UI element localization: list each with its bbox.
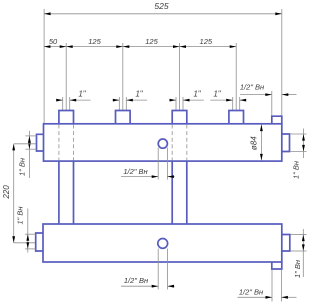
svg-text:1" Вн: 1" Вн — [17, 158, 26, 176]
dim 525 extension line left — [43, 9, 45, 124]
dim 1/2" top stub — [240, 82, 297, 116]
lower circle port — [158, 239, 168, 249]
svg-text:50: 50 — [49, 37, 58, 46]
top stub 1 — [59, 111, 74, 124]
dim 1" Вн left upper stub — [17, 131, 36, 178]
svg-text:1/2" Вн: 1/2" Вн — [124, 276, 148, 285]
upper circle port — [158, 139, 167, 148]
dim 220 — [2, 144, 36, 243]
dim 1" Вн left lower stub — [15, 206, 35, 252]
dim row2 arrow at 43.9 — [44, 45, 51, 48]
dim 1" Вн right lower stub — [291, 229, 307, 278]
dim row2 arrows at 122.8 — [116, 45, 123, 48]
dim 525 extension line right — [281, 9, 283, 116]
svg-text:125: 125 — [200, 37, 213, 46]
right stub lower collector — [282, 235, 290, 252]
dim row2 ext 179.5 — [179, 43, 181, 111]
svg-text:1/2" Вн: 1/2" Вн — [239, 287, 263, 296]
left stub lower collector — [36, 233, 43, 251]
svg-text:525: 525 — [154, 1, 168, 11]
svg-text:ø84: ø84 — [250, 136, 259, 150]
svg-text:1" Вн: 1" Вн — [291, 161, 300, 179]
dim Ø84 — [250, 125, 263, 161]
svg-text:1" Вн: 1" Вн — [15, 206, 24, 224]
dim 1/2" lower circle — [121, 249, 175, 290]
svg-text:1/2" Вн: 1/2" Вн — [240, 82, 264, 91]
dim row2 arrows at 66.2 — [60, 45, 67, 48]
top stub 4 — [229, 111, 244, 124]
upper collector body — [44, 124, 282, 161]
dim row2 ext 122.8 — [122, 43, 124, 111]
svg-text:1/2" Вн: 1/2" Вн — [123, 167, 147, 176]
svg-text:1": 1" — [193, 90, 201, 99]
pipe 2 — [171, 161, 173, 224]
pipe 1 — [58, 161, 60, 224]
dim row2 ext 236.2 — [235, 43, 237, 111]
svg-text:125: 125 — [145, 37, 158, 46]
lower collector body — [43, 224, 282, 262]
dim row2 arrows at 179.5 — [173, 45, 180, 48]
hidden bore dashed lines stub1/pipe1 — [58, 125, 60, 161]
dim 1" stub4 — [210, 90, 246, 124]
top stub 3 — [172, 111, 187, 124]
dim 525 arrow left — [44, 12, 51, 15]
svg-text:1" Вн: 1" Вн — [293, 260, 302, 278]
hidden bore dashed lines stub3/pipe2 — [171, 125, 173, 161]
dim 1" Вн right upper stub — [290, 129, 307, 180]
dim 525 arrow right — [275, 12, 282, 15]
dim 1" stub1 — [56, 90, 90, 124]
dim row2 line — [44, 46, 236, 48]
dim 525 line — [44, 13, 282, 15]
dim row2 arrow at 236.2 — [230, 45, 237, 48]
svg-text:125: 125 — [88, 37, 101, 46]
svg-text:1": 1" — [213, 90, 221, 99]
dim 1/2" bottom stub — [238, 270, 297, 302]
bottom small stub 1/2" — [272, 262, 282, 269]
svg-text:1": 1" — [78, 90, 86, 99]
dim 1" stub2 — [113, 90, 147, 124]
svg-text:220: 220 — [2, 185, 11, 200]
dim 1" stub3 — [170, 90, 204, 124]
left stub upper collector — [37, 134, 44, 151]
dim 1/2" upper circle — [121, 148, 175, 180]
top small stub 1/2" — [272, 116, 282, 124]
right stub upper collector — [282, 134, 290, 152]
dim row2 ext 66.2 — [65, 43, 67, 111]
svg-text:1": 1" — [135, 90, 143, 99]
top stub 2 — [116, 111, 131, 124]
